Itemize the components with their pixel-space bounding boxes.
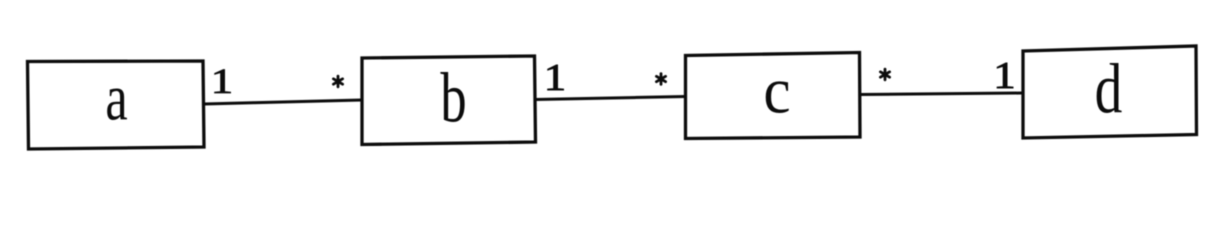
multiplicity * (b side)	[333, 76, 342, 87]
svg-text:d: d	[1095, 49, 1123, 128]
box d	[1023, 46, 1197, 138]
svg-text:c: c	[763, 53, 790, 127]
wire b-c	[536, 97, 686, 100]
box a	[28, 61, 205, 149]
box c	[686, 53, 861, 139]
svg-text:1: 1	[211, 61, 233, 101]
svg-text:1: 1	[544, 56, 566, 98]
wire c-d	[860, 93, 1022, 95]
multiplicity * (c side)	[656, 74, 665, 85]
box b	[362, 56, 536, 145]
wire a-b	[204, 100, 362, 104]
svg-text:1: 1	[993, 54, 1015, 96]
svg-text:b: b	[440, 58, 466, 138]
multiplicity * (c right side)	[880, 69, 889, 80]
svg-text:a: a	[105, 61, 127, 134]
